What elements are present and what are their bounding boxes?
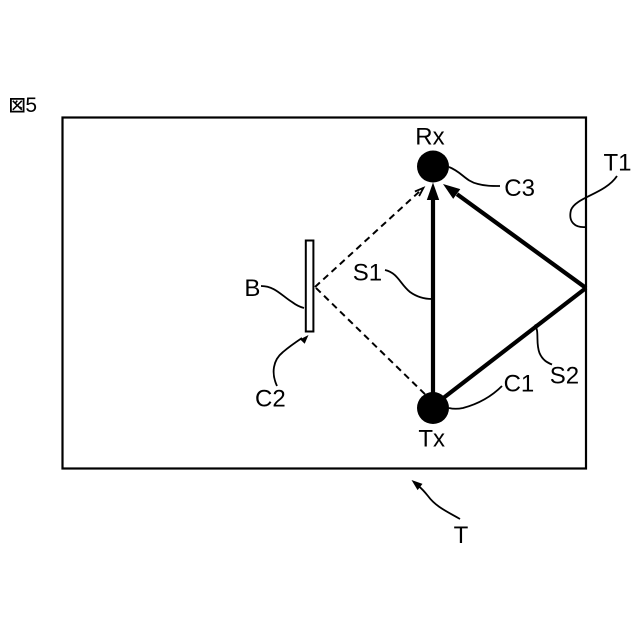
target area border T1 (rectangle) <box>63 118 587 469</box>
signal S1: direct path arrow Tx to Rx <box>427 183 439 407</box>
barrier B (vertical bar) <box>306 241 314 332</box>
leader curve from S1 to direct arrow <box>385 270 432 299</box>
leader arrow from C2 to barrier bottom <box>274 335 309 386</box>
svg-text:T1: T1 <box>604 150 632 177</box>
svg-text:B: B <box>244 275 260 302</box>
svg-text:Tx: Tx <box>418 425 445 452</box>
transmitter Tx (filled circle) <box>417 392 449 424</box>
leader arrow from T to bottom border <box>412 480 461 519</box>
signal S2: path right wall to Rx with arrowhead <box>443 184 586 288</box>
figure label 図5 <box>10 94 37 117</box>
svg-text:C1: C1 <box>504 370 535 397</box>
svg-text:S1: S1 <box>353 259 382 286</box>
leader curve from B to barrier <box>261 286 304 308</box>
svg-text:5: 5 <box>25 94 37 117</box>
arrowhead (open) of dashed path at Rx <box>415 188 424 196</box>
leader curve from T1 to border <box>570 176 617 227</box>
signal S2: path Tx to reflection point at right wall <box>433 288 586 406</box>
svg-text:T: T <box>454 522 469 549</box>
svg-text:C2: C2 <box>255 385 286 412</box>
leader curve from Rx to C3 <box>449 167 500 186</box>
leader curve from S2 to reflected path line <box>535 325 552 365</box>
svg-text:Rx: Rx <box>415 123 444 150</box>
wire: dashed path barrier B to Rx (reflected signal) <box>315 188 423 287</box>
svg-text:S2: S2 <box>550 363 579 390</box>
svg-text:C3: C3 <box>504 175 535 202</box>
receiver Rx (filled circle) <box>417 151 449 183</box>
leader curve from C1 to Tx <box>449 386 502 409</box>
wire: dashed path Tx to barrier B <box>315 287 433 402</box>
